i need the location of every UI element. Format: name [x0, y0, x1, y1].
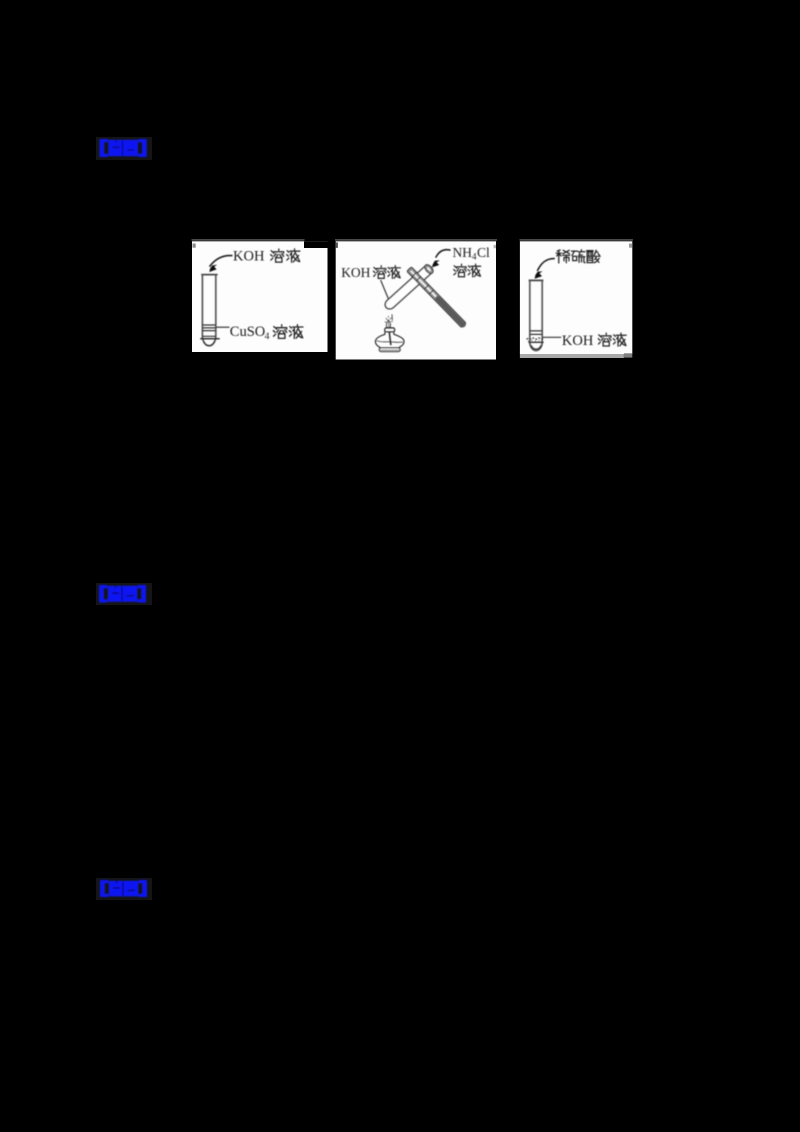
panel 3 top border line — [520, 239, 633, 241]
svg-text:NH: NH — [453, 245, 473, 260]
test tube 1 — [201, 274, 217, 276]
alcohol lamp base — [379, 348, 400, 352]
svg-text:4: 4 — [265, 332, 270, 342]
test tube 3 — [529, 279, 544, 281]
pointer line from KOH label to tube 2 — [381, 280, 392, 306]
faint halo behind blue label 1 — [96, 137, 152, 160]
arrow to tube 1 mouth — [210, 256, 233, 267]
alcohol inside lamp — [377, 341, 403, 343]
wick inside lamp — [389, 332, 391, 345]
pointer line to KOH label (panel 3) — [543, 336, 562, 338]
svg-text:KOH: KOH — [341, 265, 370, 280]
panel 2 top-right gray mark — [494, 245, 496, 248]
panel 2 top-left gray mark — [336, 242, 338, 248]
label dilute sulfuric acid — [556, 250, 570, 263]
liquid KOH in tube 3 — [530, 331, 542, 335]
arrow from NH4Cl to tube 2 mouth — [436, 250, 451, 258]
panel 1 top border line — [192, 239, 305, 241]
panel 3 white background — [520, 239, 633, 358]
panel 3 bottom gray strip — [520, 354, 624, 358]
alcohol lamp flame — [386, 320, 390, 328]
pointer line to CuSO4 label — [216, 326, 229, 328]
faint halo behind blue label 2 — [96, 583, 152, 605]
blue label 2 — [99, 585, 146, 603]
panel 2 top border line — [335, 239, 497, 241]
alcohol lamp body — [375, 332, 404, 349]
svg-text:KOH: KOH — [233, 249, 265, 265]
faint halo behind blue label 3 — [96, 878, 152, 900]
panel 3 top-right gray mark — [629, 244, 632, 248]
test tube holder (clamp) — [407, 267, 467, 329]
svg-text:KOH: KOH — [562, 333, 594, 349]
blue label 3 — [100, 880, 147, 897]
blue label 1 — [100, 139, 147, 157]
svg-text:Cl: Cl — [477, 245, 490, 260]
panel 1 top-left gray mark — [193, 244, 196, 248]
svg-text:CuSO: CuSO — [230, 324, 265, 340]
drip line below tube 2 — [391, 314, 393, 320]
panel 3 bottom-right gray mark — [624, 353, 632, 357]
panel 1 white background — [192, 239, 328, 352]
panel 2 white background — [335, 239, 497, 360]
arrow from dilute sulfuric acid to tube 3 mouth — [537, 259, 555, 272]
alcohol lamp wick holder — [385, 328, 395, 332]
liquid CuSO4 in tube 1 — [202, 325, 215, 336]
test tube 2 (tilted) — [383, 263, 435, 311]
